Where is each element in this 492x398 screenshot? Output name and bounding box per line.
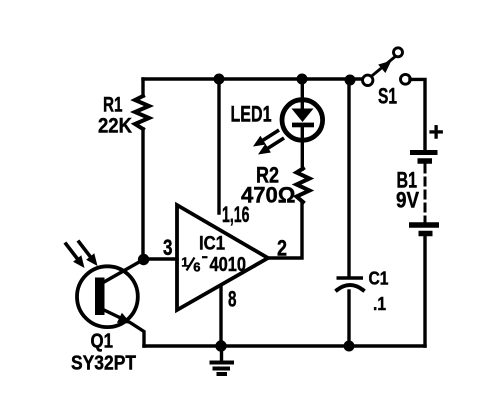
svg-text:1,16: 1,16 <box>222 202 250 227</box>
svg-text:3: 3 <box>163 235 173 260</box>
svg-text:4010: 4010 <box>210 254 247 276</box>
svg-text:LED1: LED1 <box>231 102 272 127</box>
svg-text:IC1: IC1 <box>199 233 225 255</box>
svg-text:6: 6 <box>193 259 200 274</box>
svg-text:2: 2 <box>277 236 287 261</box>
svg-text:Q1: Q1 <box>91 331 114 353</box>
svg-text:22K: 22K <box>98 114 132 138</box>
svg-text:8: 8 <box>228 287 237 312</box>
svg-text:.1: .1 <box>373 294 386 314</box>
svg-text:SY32PT: SY32PT <box>71 353 136 375</box>
svg-text:9V: 9V <box>396 188 419 213</box>
svg-text:S1: S1 <box>378 84 397 109</box>
svg-text:C1: C1 <box>369 269 389 289</box>
svg-text:+: + <box>429 117 444 147</box>
